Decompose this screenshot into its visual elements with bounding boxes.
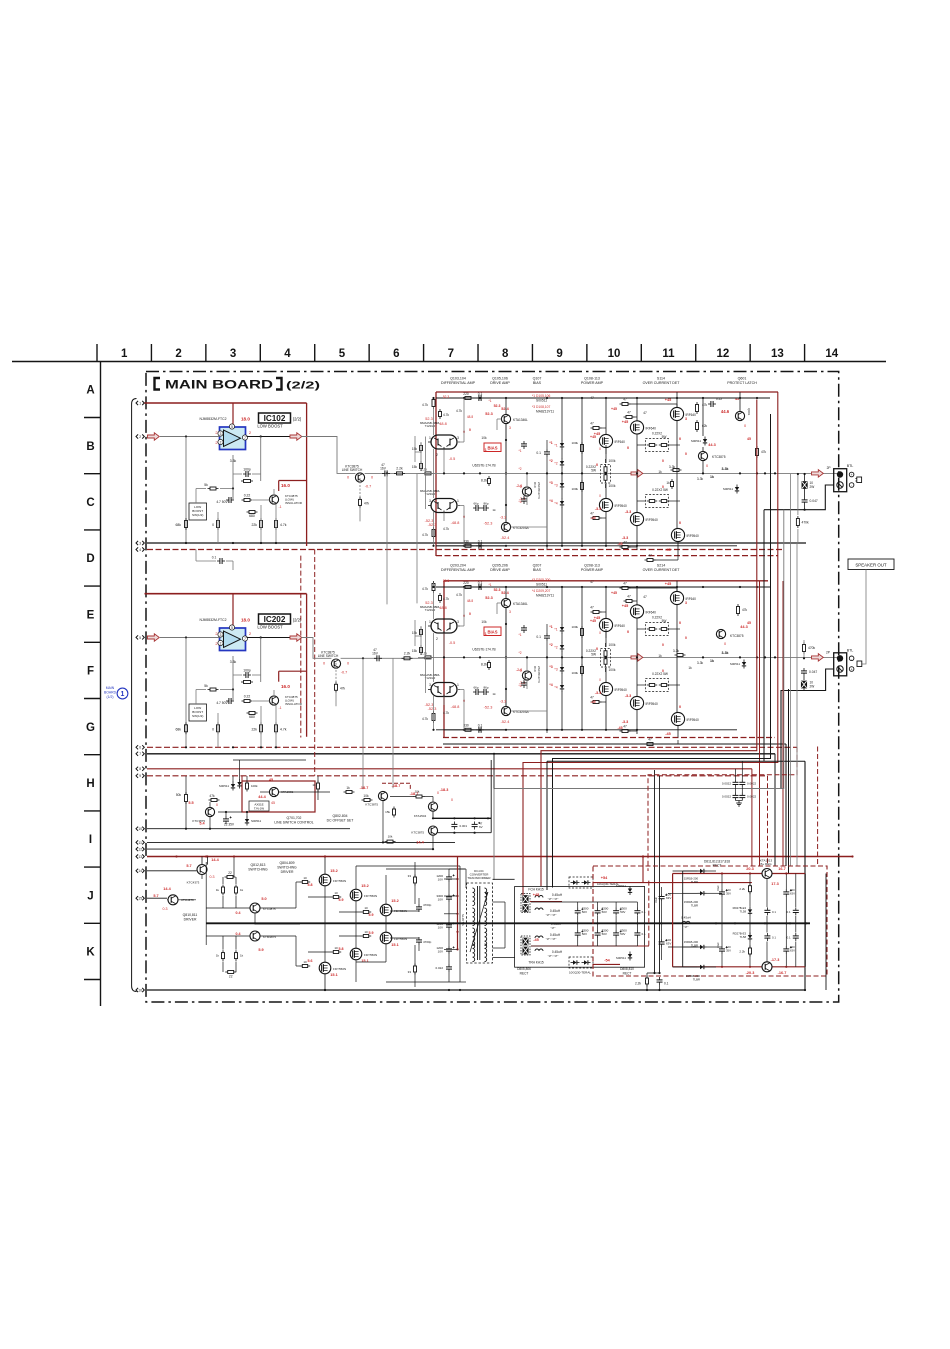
wires dco [390, 796, 414, 798]
node pin 13 [136, 854, 138, 858]
power rails Q2 [581, 587, 583, 730]
svg-text:-52.3: -52.3 [484, 706, 493, 710]
source links [605, 629, 607, 638]
red wire -54 [593, 963, 620, 965]
svg-text:*3: *3 [549, 481, 552, 485]
svg-text:4.7k: 4.7k [443, 413, 449, 417]
svg-text:*4: *4 [518, 684, 521, 688]
svg-text:LINE SWITCH: LINE SWITCH [318, 654, 339, 658]
svg-text:+54: +54 [601, 876, 608, 880]
left resistors Q2 [432, 584, 435, 591]
svg-text:15.2: 15.2 [361, 884, 368, 888]
svg-text:IRF640: IRF640 [615, 440, 626, 444]
feedback caps Q1 [521, 443, 527, 445]
svg-text:0.1: 0.1 [478, 581, 483, 585]
overcurrent transistor Q2 [716, 629, 725, 638]
cap 0.1 mid Q1 [544, 451, 550, 453]
svg-text:+45: +45 [611, 591, 617, 595]
svg-text:5.5: 5.5 [188, 801, 193, 805]
svg-text:10: 10 [334, 946, 338, 950]
power rails Q1 [581, 398, 583, 546]
bus wire node4 dashed [147, 549, 783, 551]
svg-text:0.1: 0.1 [664, 982, 669, 986]
svg-text:DRIVE AMP: DRIVE AMP [490, 568, 510, 572]
zener RD27B top [748, 909, 752, 913]
title MAIN BOARD 2/2 [155, 378, 282, 390]
svg-text:3-3k: 3-3k [721, 467, 728, 471]
svg-text:BIAS: BIAS [487, 446, 497, 451]
wire signal to line switch [302, 437, 356, 474]
svg-text:0: 0 [437, 791, 439, 795]
svg-text:FCH KA15: FCH KA15 [528, 888, 543, 892]
svg-text:0: 0 [323, 662, 325, 666]
svg-text:"1T"-"1T": "1T"-"1T" [546, 913, 557, 917]
svg-text:0.45uH: 0.45uH [550, 933, 561, 937]
svg-text:0: 0 [596, 463, 598, 467]
svg-text:66p: 66p [473, 502, 478, 506]
junction dots output line [463, 472, 465, 474]
svg-text:10: 10 [138, 827, 142, 831]
svg-text:*4: *4 [554, 686, 557, 690]
diode S00511 rect a [628, 889, 632, 893]
op-amp IC102 [220, 427, 246, 450]
svg-text:5W: 5W [662, 435, 667, 439]
svg-text:IRF640: IRF640 [646, 426, 657, 430]
svg-text:H: H [86, 778, 94, 790]
svg-text:-1: -1 [278, 505, 281, 509]
wires cap bank rails [531, 901, 637, 903]
svg-text:3: 3 [685, 417, 687, 421]
svg-text:5: 5 [231, 626, 233, 630]
svg-text:Q203,204: Q203,204 [450, 564, 466, 568]
svg-text:0.047: 0.047 [809, 670, 817, 674]
node pin 2 [136, 434, 138, 438]
cap 4700p a [416, 906, 422, 908]
bus wire node6 dashed [147, 746, 797, 748]
svg-text:0.3: 0.3 [163, 907, 168, 911]
svg-text:8.2k: 8.2k [481, 479, 487, 483]
svg-text:-3.3: -3.3 [500, 700, 507, 704]
svg-text:0: 0 [599, 447, 601, 451]
svg-text:0: 0 [599, 631, 601, 635]
diode string Q1 [560, 443, 564, 447]
svg-text:47k: 47k [761, 450, 767, 454]
svg-text:-52.3: -52.3 [425, 703, 434, 707]
svg-text:S00511: S00511 [730, 662, 740, 666]
svg-text:12: 12 [717, 348, 730, 360]
svg-text:16V: 16V [372, 652, 379, 656]
wires fets Q2 [605, 587, 607, 618]
svg-text:66p: 66p [473, 686, 478, 690]
power fets Q1 [599, 434, 612, 447]
svg-text:3: 3 [429, 683, 431, 687]
svg-text:S00511: S00511 [616, 884, 626, 888]
svg-text:14.4: 14.4 [163, 887, 171, 891]
svg-text:IRF9540: IRF9540 [646, 518, 658, 522]
svg-text:48.8: 48.8 [467, 415, 473, 419]
svg-text:15.1: 15.1 [391, 943, 398, 947]
svg-text:FDY550N: FDY550N [333, 967, 346, 971]
svg-text:22k: 22k [252, 523, 258, 527]
wires to bus IC202 [185, 746, 187, 748]
wires switching fets [254, 913, 256, 924]
diode S00511 b [231, 784, 235, 788]
svg-text:*2: *2 [554, 646, 557, 650]
wires to transformer [386, 868, 465, 870]
svg-text:22 35V: 22 35V [224, 823, 235, 827]
svg-text:63V: 63V [790, 949, 795, 953]
resistor 3.3k node [673, 469, 679, 472]
svg-text:8: 8 [139, 767, 141, 771]
svg-text:*1: *1 [554, 628, 557, 632]
cap cluster 0.0022 [733, 781, 739, 783]
svg-text:-0.7: -0.7 [365, 485, 372, 489]
svg-text:D805,806: D805,806 [517, 967, 531, 971]
bias transistor Q2 [522, 671, 531, 680]
transistor Q KTC3875 line-sw-ctl [205, 807, 214, 816]
svg-text:2.2k: 2.2k [421, 651, 427, 655]
svg-text:4700p: 4700p [423, 940, 432, 944]
svg-text:100k: 100k [609, 459, 616, 463]
svg-text:-18.3: -18.3 [440, 788, 449, 792]
svg-text:10V: 10V [438, 898, 443, 902]
svg-text:-48.8: -48.8 [451, 521, 460, 525]
drive transistor upper Q2 [501, 598, 510, 607]
svg-text:47: 47 [623, 725, 627, 729]
svg-text:3: 3 [685, 601, 687, 605]
svg-text:5W: 5W [591, 469, 596, 473]
svg-text:16.0: 16.0 [281, 684, 290, 689]
svg-text:I: I [89, 834, 92, 846]
svg-text:SW(1/2): SW(1/2) [192, 513, 203, 517]
svg-text:-45: -45 [665, 548, 671, 552]
op-amp IC202 [220, 628, 246, 651]
svg-text:KTC4373: KTC4373 [187, 881, 200, 885]
inductor 0.45uH center bus [682, 921, 690, 923]
boxed label AX51E [249, 801, 269, 811]
capacitor coupling 47u [384, 470, 386, 476]
svg-text:1: 1 [457, 499, 459, 503]
svg-text:48.8: 48.8 [467, 599, 473, 603]
svg-text:33: 33 [408, 874, 412, 878]
svg-text:*1: *1 [518, 633, 521, 637]
svg-text:DIFFERENTIAL AMP: DIFFERENTIAL AMP [441, 568, 476, 572]
transistor KTA1013 top [762, 869, 772, 879]
svg-text:10: 10 [364, 906, 368, 910]
svg-text:0.047: 0.047 [810, 499, 818, 503]
svg-text:FDY550N: FDY550N [333, 879, 346, 883]
svg-text:5.7: 5.7 [153, 894, 158, 898]
svg-text:1k: 1k [658, 470, 662, 474]
bias transistor Q1 [522, 487, 531, 496]
differential pair Q1 upper [431, 435, 457, 449]
svg-text:2: 2 [220, 440, 222, 444]
top rail Q1 [436, 397, 506, 399]
fet drain wires [324, 857, 326, 874]
cap bank left column [446, 876, 452, 878]
svg-text:5.8: 5.8 [308, 883, 313, 887]
resistor pulldowns IC202 [185, 638, 187, 748]
svg-text:0.22: 0.22 [244, 494, 251, 498]
rect module box [515, 887, 645, 968]
svg-text:0: 0 [451, 798, 453, 802]
emitter resistor 47k line switch [359, 478, 361, 497]
svg-text:*2: *2 [554, 462, 557, 466]
wire riser black at 786 [785, 744, 787, 866]
svg-text:3: 3 [139, 541, 141, 545]
feedback tap verticals [362, 658, 364, 789]
red dashed inner [648, 881, 650, 946]
svg-text:13: 13 [138, 855, 142, 859]
svg-text:2W: 2W [810, 485, 815, 489]
svg-text:B: B [86, 441, 94, 453]
svg-text:Q810,811: Q810,811 [183, 913, 198, 917]
svg-text:4.7k: 4.7k [443, 527, 449, 531]
svg-text:0.1: 0.1 [787, 936, 791, 940]
capacitor coupling 47u [376, 655, 378, 661]
svg-text:TRH KA15: TRH KA15 [528, 961, 543, 965]
svg-text:47: 47 [590, 580, 594, 584]
svg-text:0.1: 0.1 [642, 932, 647, 936]
svg-text:16: 16 [138, 988, 142, 992]
wire output IC102 [247, 436, 307, 438]
svg-text:PROTECT LATCH: PROTECT LATCH [727, 381, 757, 385]
gate resistors 10 [302, 881, 307, 884]
svg-text:+45: +45 [622, 604, 628, 608]
svg-text:47: 47 [590, 606, 594, 610]
svg-text:52.3: 52.3 [443, 395, 449, 399]
svg-text:MAIN: MAIN [106, 686, 115, 690]
wire riser dark red A [541, 400, 757, 887]
resistor 10k dco [364, 799, 370, 802]
svg-text:*1: *1 [554, 444, 557, 448]
svg-text:3-3k: 3-3k [669, 465, 676, 469]
svg-text:4.7k: 4.7k [443, 597, 449, 601]
svg-text:OVER CURRENT DET: OVER CURRENT DET [643, 381, 681, 385]
svg-text:"1T"-"1T": "1T"-"1T" [546, 937, 557, 941]
svg-text:*3: *3 [554, 484, 557, 488]
svg-text:-52.3: -52.3 [428, 707, 437, 711]
node pin 1 [136, 401, 138, 405]
svg-text:-54: -54 [604, 959, 610, 963]
svg-text:*1: *1 [488, 399, 491, 403]
node pin 8 [136, 767, 138, 771]
node pin 10 [136, 827, 138, 831]
svg-text:10V: 10V [438, 950, 443, 954]
svg-text:4: 4 [284, 348, 291, 360]
resistor 100k b [246, 783, 249, 789]
coupling caps Q1 [475, 505, 477, 511]
wire riser black C [553, 414, 771, 888]
svg-text:S00511: S00511 [536, 583, 547, 587]
cap 0.001 [451, 823, 457, 825]
svg-text:-3.3: -3.3 [500, 516, 507, 520]
red box line switch [242, 781, 315, 812]
svg-text:K: K [86, 947, 95, 959]
svg-text:*4: *4 [549, 499, 552, 503]
svg-text:1k: 1k [688, 666, 692, 670]
bus wire node9 dashed [147, 775, 768, 777]
wire red insulator box IC102 [279, 480, 307, 482]
svg-text:0: 0 [679, 521, 681, 525]
transistor KTC3875 dco b [428, 826, 437, 835]
svg-text:IRF640: IRF640 [646, 610, 657, 614]
wire BTL CN1 return [764, 485, 834, 510]
svg-text:5.8: 5.8 [339, 947, 344, 951]
source resistor dashed pairs Q1 [646, 439, 669, 452]
main output line Q2 [434, 656, 838, 658]
svg-text:50V: 50V [620, 932, 625, 936]
svg-text:44.3: 44.3 [740, 625, 747, 629]
wire riser red at 751.9 [751, 769, 753, 866]
cap 100 35V top [719, 891, 725, 893]
svg-text:3.3k: 3.3k [230, 459, 237, 463]
svg-text:-3.3: -3.3 [625, 510, 632, 514]
resistor 33 a [414, 877, 417, 883]
cap 100 35V bottom [719, 948, 725, 950]
top rail Q2 [444, 586, 506, 588]
svg-text:3-3k: 3-3k [697, 661, 704, 665]
svg-text:2: 2 [139, 435, 141, 439]
svg-text:47: 47 [627, 411, 631, 415]
grid ruler top line [12, 361, 886, 363]
svg-text:5.6: 5.6 [308, 959, 313, 963]
svg-text:-45: -45 [665, 732, 671, 736]
svg-text:2.2k: 2.2k [739, 950, 745, 954]
svg-text:SWITCHING: SWITCHING [277, 866, 297, 870]
svg-text:50V: 50V [602, 910, 607, 914]
bottom RC 2.2k 0.1 [646, 978, 649, 984]
svg-text:10k: 10k [481, 620, 487, 624]
svg-text:1k: 1k [710, 659, 714, 663]
svg-text:47: 47 [590, 396, 594, 400]
svg-text:5: 5 [231, 425, 233, 429]
svg-text:-52.3: -52.3 [484, 522, 493, 526]
svg-text:9: 9 [139, 774, 141, 778]
svg-text:KTM3875: KTM3875 [263, 935, 276, 939]
wires fets Q1 [605, 398, 607, 434]
wire riser black F [788, 689, 790, 874]
red supply vertical left of transformer [457, 857, 459, 950]
svg-text:U62STE-174.7B: U62STE-174.7B [472, 648, 495, 652]
svg-text:-0.7: -0.7 [341, 671, 348, 675]
rail bottom full [436, 545, 737, 547]
svg-text:52.3: 52.3 [485, 596, 492, 600]
svg-text:TRANSFORMER: TRANSFORMER [467, 876, 491, 880]
svg-text:47k: 47k [742, 608, 748, 612]
svg-text:SPEAKER OUT: SPEAKER OUT [855, 563, 887, 568]
svg-text:1k: 1k [240, 888, 244, 892]
svg-text:BIAS: BIAS [533, 568, 542, 572]
svg-text:+45: +45 [590, 435, 596, 439]
svg-text:LINE SWITCH: LINE SWITCH [342, 468, 363, 472]
svg-text:3: 3 [220, 633, 222, 637]
gray return verticals [790, 474, 792, 866]
diode S00511 a [245, 819, 249, 823]
svg-text:POWER AMP: POWER AMP [581, 381, 604, 385]
svg-text:-3.3: -3.3 [595, 507, 602, 511]
svg-text:0: 0 [679, 621, 681, 625]
svg-text:DIFFERENTIAL AMP: DIFFERENTIAL AMP [441, 381, 476, 385]
svg-text:7: 7 [244, 436, 246, 440]
svg-text:3-3k: 3-3k [673, 649, 680, 653]
svg-text:52.3: 52.3 [494, 404, 501, 408]
wire riser black at 775 [774, 754, 776, 866]
svg-text:0.001: 0.001 [460, 824, 468, 828]
svg-text:100k: 100k [571, 671, 578, 675]
svg-text:100k: 100k [251, 784, 258, 788]
svg-text:DRIVER: DRIVER [184, 918, 197, 922]
svg-text:2W: 2W [810, 685, 815, 689]
vertical rail drive Q2 [505, 608, 507, 707]
svg-text:0.1: 0.1 [772, 910, 776, 914]
svg-text:+45: +45 [590, 619, 596, 623]
svg-text:1k: 1k [346, 786, 350, 790]
svg-text:1k: 1k [240, 954, 244, 958]
bus wire node8 [147, 768, 752, 770]
wire speaker label link [865, 570, 867, 631]
svg-text:0.1: 0.1 [536, 635, 541, 639]
svg-text:Q103,104: Q103,104 [450, 377, 466, 381]
transistor KTC3875 dc offset a [378, 791, 387, 800]
svg-text:(2/2): (2/2) [293, 417, 302, 422]
svg-text:47: 47 [643, 411, 647, 415]
main center bus thick [206, 922, 810, 924]
svg-text:0.022: 0.022 [435, 966, 443, 970]
source resistor vertical pair Q2 [601, 649, 611, 668]
svg-text:1: 1 [429, 436, 431, 440]
svg-text:6: 6 [393, 348, 399, 360]
bus wire mid upper [443, 743, 786, 745]
svg-text:50V: 50V [582, 910, 587, 914]
wire long vertical right [804, 761, 806, 990]
svg-text:SW(1/2): SW(1/2) [192, 714, 203, 718]
svg-text:*1: *1 [483, 448, 486, 452]
cap 22 35V [223, 818, 229, 820]
red wire -45 horizontal [531, 945, 649, 947]
resistor 2.2k [404, 657, 410, 660]
svg-text:1: 1 [121, 348, 128, 360]
feedback tap verticals [386, 473, 388, 604]
emitter resistor 47k line switch [335, 663, 337, 682]
svg-text:15.1: 15.1 [361, 959, 368, 963]
diode top mid [237, 782, 241, 786]
svg-text:10k: 10k [415, 790, 420, 794]
svg-text:48.8: 48.8 [439, 606, 446, 610]
transistor KTA1013 bottom [762, 962, 772, 972]
svg-text:0: 0 [596, 647, 598, 651]
svg-text:5W: 5W [662, 619, 667, 623]
resistor 47k right [756, 449, 759, 456]
svg-text:-18.7: -18.7 [392, 784, 401, 788]
svg-text:MA8Z13Y11: MA8Z13Y11 [536, 594, 554, 598]
svg-text:20.3: 20.3 [746, 867, 753, 871]
wire input IC102 [160, 436, 220, 438]
regulator black verticals [682, 871, 684, 967]
svg-text:100p: 100p [243, 669, 251, 673]
source join wires [324, 886, 326, 962]
caps 220 63V right [783, 891, 789, 893]
svg-text:G: G [86, 722, 95, 734]
svg-text:10k: 10k [388, 835, 393, 839]
svg-text:0: 0 [347, 476, 349, 480]
svg-text:POWER AMP: POWER AMP [581, 568, 604, 572]
node pin 5 [136, 635, 138, 639]
svg-text:2SC4511/TX: 2SC4511/TX [537, 482, 541, 499]
svg-text:4.7k: 4.7k [456, 409, 462, 413]
gate resistors Q2 [622, 587, 628, 590]
svg-text:Q207: Q207 [533, 564, 542, 568]
